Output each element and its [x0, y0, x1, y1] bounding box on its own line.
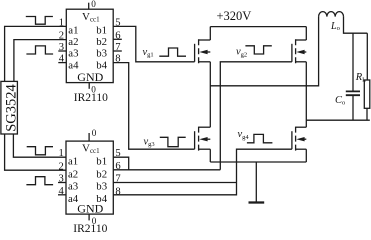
svg-text:a4: a4 — [68, 59, 79, 71]
MOSFET Q3 drain stub — [296, 39, 307, 41]
wire U1 pin 5 to M1 gate (vg1) — [113, 26, 194, 61]
IC U2 GND bottom pin stub — [88, 214, 90, 220]
MOSFET Q2 gate bar — [194, 131, 196, 149]
svg-text:b4: b4 — [96, 193, 107, 205]
svg-text:b2: b2 — [96, 168, 107, 180]
capacitor Co bottom lead — [352, 96, 354, 120]
wire inductor to load top — [344, 17, 368, 34]
svg-text:a3: a3 — [68, 48, 78, 60]
MOSFET Q2 channel dashes — [198, 127, 200, 151]
svg-text:+320V: +320V — [217, 9, 252, 23]
MOSFET Q3 channel dashes — [295, 39, 297, 63]
MOSFET Q1 gate bar — [194, 44, 196, 62]
svg-text:0: 0 — [92, 128, 97, 138]
MOSFET Q3 drain lead — [305, 27, 307, 40]
svg-text:SG3524: SG3524 — [4, 83, 20, 131]
waveform notch vg3 — [160, 137, 186, 146]
capacitor Co plates — [346, 91, 360, 95]
MOSFET Q4 gate bar — [291, 131, 293, 149]
MOSFET Q3 source stub — [296, 61, 307, 63]
svg-text:0: 0 — [91, 0, 96, 9]
waveform notch at U1 pin 1 — [26, 17, 53, 25]
resistor RL bottom lead — [366, 108, 368, 120]
MOSFET Q4 body arrow — [296, 137, 304, 141]
IC U1 IR2110 box — [66, 9, 113, 82]
IC U2 IR2110 box — [66, 141, 113, 214]
+320V supply rail — [210, 26, 306, 28]
wire vg2 riser to M3 gate — [220, 62, 292, 170]
ground stem — [255, 162, 257, 202]
IC U2 Vcc1 top pin stub — [88, 133, 90, 141]
svg-text:b4: b4 — [96, 59, 107, 71]
resistor RL box — [364, 80, 370, 108]
MOSFET Q2 body arrow — [199, 137, 207, 141]
MOSFET Q2 source stub — [199, 148, 211, 150]
MOSFET Q1 source stub — [199, 61, 211, 63]
MOSFET Q4 source stub — [296, 148, 307, 150]
IC U1 GND bottom pin stub — [88, 83, 90, 89]
svg-text:a1: a1 — [68, 25, 78, 37]
svg-text:b3: b3 — [96, 181, 107, 193]
svg-text:a3: a3 — [68, 181, 78, 193]
waveform notch at U2 pin 1 — [27, 147, 53, 155]
wire node A to inductor — [210, 17, 318, 86]
U1 pin 4 stub — [58, 62, 66, 64]
svg-text:b1: b1 — [96, 25, 107, 37]
svg-text:Lo: Lo — [330, 21, 340, 32]
resistor RL top lead — [366, 33, 368, 80]
MOSFET Q3 body arrow — [296, 50, 304, 54]
waveform notch vg2 — [245, 46, 271, 54]
svg-text:b2: b2 — [96, 36, 107, 48]
capacitor Co top lead — [352, 33, 354, 90]
wire Q3 source to Q4 drain (node B) — [305, 62, 307, 127]
MOSFET Q3 body stub — [304, 51, 306, 53]
waveform pulse vg1 — [159, 48, 186, 56]
IC U1 pin 6 stub — [113, 38, 122, 40]
wire SG3524 to U1 pin 1 — [5, 26, 67, 81]
svg-text:Vcc1: Vcc1 — [82, 11, 100, 24]
inductor Lo — [319, 12, 344, 17]
svg-text:IR2110: IR2110 — [73, 223, 107, 233]
source rail Q2-Q4 — [210, 161, 306, 163]
svg-text:RL: RL — [355, 72, 366, 84]
svg-text:8: 8 — [115, 186, 120, 197]
U1 pin 3 stub — [58, 50, 66, 52]
wire Q1 source to Q2 drain (node A) — [209, 62, 211, 127]
waveform pulse vg4 — [247, 134, 273, 142]
IC U1 pin 7 stub — [113, 50, 122, 52]
svg-text:b1: b1 — [96, 155, 107, 167]
MOSFET Q1 body arrow — [199, 50, 207, 54]
svg-text:Vcc1: Vcc1 — [82, 143, 100, 156]
MOSFET Q1 body stub — [207, 51, 210, 53]
IC U1 Vcc1 top pin stub — [88, 3, 90, 10]
waveform pulse at U2 pin 3 — [26, 177, 53, 185]
MOSFET Q4 drain stub — [296, 126, 307, 128]
MOSFET Q1 channel dashes — [198, 39, 200, 63]
wire U2 pin 7 — [113, 182, 236, 184]
svg-text:b3: b3 — [96, 48, 107, 60]
MOSFET Q4 channel dashes — [295, 127, 297, 151]
svg-text:vg4: vg4 — [238, 129, 250, 141]
ground bar — [249, 201, 265, 203]
svg-text:a2: a2 — [68, 168, 78, 180]
svg-text:GND: GND — [77, 70, 103, 84]
svg-text:vg1: vg1 — [143, 47, 154, 59]
MOSFET Q2 body stub — [207, 138, 210, 140]
MOSFET Q3 gate bar — [291, 44, 293, 62]
U2 pin 3 stub — [58, 182, 66, 184]
MOSFET Q2 source lead — [209, 149, 211, 162]
waveform pulse at U1 pin 3 — [26, 46, 53, 54]
MOSFET Q1 drain lead — [209, 27, 211, 40]
MOSFET Q2 drain stub — [199, 126, 211, 128]
wire SG3524 to U2 pin 1 — [13, 134, 66, 157]
wire U2 pin 8 to M4 gate (vg4) — [113, 149, 292, 195]
U2 pin 4 stub — [58, 194, 66, 196]
wire SG3524 to U2 pin 2 — [5, 134, 66, 170]
svg-text:a2: a2 — [68, 36, 78, 48]
PWM controller SG3524 box — [1, 81, 18, 134]
svg-text:a4: a4 — [68, 193, 79, 205]
wire node B to load bottom rail — [306, 119, 370, 121]
wire U1 pin 8 to M2 gate (vg3) — [113, 63, 194, 150]
svg-text:Co: Co — [335, 95, 345, 107]
svg-text:a1: a1 — [68, 155, 78, 167]
MOSFET Q1 drain stub — [199, 39, 211, 41]
svg-text:vg3: vg3 — [144, 136, 155, 148]
MOSFET Q4 body stub — [304, 138, 306, 140]
wire SG3524 to U1 pin 2 — [14, 40, 66, 82]
svg-text:IR2110: IR2110 — [74, 92, 108, 104]
svg-text:vg2: vg2 — [236, 47, 247, 59]
wire U2 pin 5/6 jog to vg2 riser — [113, 157, 220, 170]
MOSFET Q4 source lead — [305, 149, 307, 162]
